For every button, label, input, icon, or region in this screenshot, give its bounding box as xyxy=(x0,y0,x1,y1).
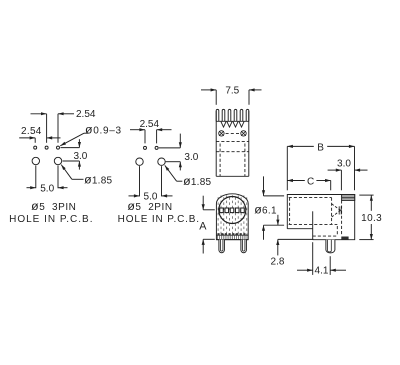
extension line hole2 xyxy=(46,114,48,143)
2-pin pattern: small pin hole 2 xyxy=(155,146,158,149)
3-pin pattern: small pin hole 1 xyxy=(34,146,37,149)
side view hidden vertical at band xyxy=(341,200,343,236)
dimension 2.54 (left, holes 1-2) line xyxy=(19,137,35,139)
side view hidden cavity right xyxy=(331,198,333,225)
top view tooth base line xyxy=(216,120,249,122)
3-pin pattern: large hole 2 xyxy=(54,157,61,164)
svg-text:ø1.85: ø1.85 xyxy=(84,172,112,186)
side view hidden lamp triangle xyxy=(332,204,341,211)
dimension 7.5 line xyxy=(201,89,216,91)
svg-text:4.1: 4.1 xyxy=(315,266,329,277)
svg-text:B: B xyxy=(317,142,324,153)
dimension 10.3 line xyxy=(370,195,372,211)
top view hidden vertical left xyxy=(219,144,221,177)
top view left mounting hole with cross xyxy=(219,131,224,136)
svg-text:2.54: 2.54 xyxy=(140,119,160,130)
svg-text:ø5 2PIN: ø5 2PIN xyxy=(127,199,172,213)
top view hidden line 2 xyxy=(216,151,249,153)
svg-text:2.54: 2.54 xyxy=(21,126,42,137)
dimension 2.54 (2-pin) line xyxy=(130,129,145,131)
top view center line between holes xyxy=(226,132,240,134)
front view contact row above band xyxy=(217,233,247,235)
front view left pin xyxy=(219,240,225,253)
3-pin pattern: small pin hole 2 xyxy=(45,146,48,149)
dimension 2.8 line xyxy=(277,239,279,255)
extension line hole3 xyxy=(57,114,59,143)
dimension 3.0 (2-pin) extensions xyxy=(159,147,181,149)
dimension A upper extension xyxy=(203,209,215,211)
dimension B extension lines xyxy=(286,146,288,190)
side view solder pad block xyxy=(341,237,348,240)
svg-text:2.54: 2.54 xyxy=(76,109,96,120)
top view hidden vertical right xyxy=(244,144,246,177)
dimension A lower extension xyxy=(203,238,215,240)
dimension 3.0 arrows xyxy=(78,139,80,147)
top view right mounting hole with cross xyxy=(241,131,246,136)
svg-text:3.0: 3.0 xyxy=(337,159,351,170)
svg-text:2.8: 2.8 xyxy=(271,257,285,268)
dimension C extension xyxy=(330,181,332,191)
side view hidden slot bottom xyxy=(313,235,338,237)
dimension 3.0 (2-pin) arrows xyxy=(179,134,181,148)
dimension dia6.1 leader from label xyxy=(277,215,279,225)
side view hidden cavity top xyxy=(289,197,332,199)
7.5 extension lines xyxy=(215,90,217,105)
side view outline xyxy=(287,195,354,240)
svg-text:7.5: 7.5 xyxy=(225,85,239,96)
dimension dia6.1 top extension xyxy=(264,195,285,197)
dimension 5.0 (2-pin) line xyxy=(129,195,140,197)
top view contact teeth xyxy=(216,109,249,121)
dimension 4.1 extension lines xyxy=(312,242,314,275)
dimension 5.0 (3-pin) extension lines xyxy=(35,165,37,188)
2-pin pattern: large hole 2 xyxy=(158,158,165,165)
front view right pin xyxy=(241,240,247,253)
front view rib texture xyxy=(218,197,247,235)
dimension 10.3 extension lines xyxy=(359,194,373,196)
leader for dia 1.85 (2-pin) xyxy=(165,165,177,181)
3-pin pattern: small pin hole 3 xyxy=(57,146,60,149)
svg-text:5.0: 5.0 xyxy=(144,191,158,202)
dimension 4.1 line xyxy=(297,269,313,271)
front view ceramic face circle dia 6.1 xyxy=(219,197,246,224)
svg-text:ø5 3PIN: ø5 3PIN xyxy=(31,199,76,213)
side view hidden slot right xyxy=(336,226,338,236)
front view bottom band xyxy=(216,234,248,236)
svg-text:HOLE IN P.C.B.: HOLE IN P.C.B. xyxy=(9,214,93,225)
side view knurled band xyxy=(342,195,355,201)
top view body outline xyxy=(215,111,217,176)
extension lines 2-pin small holes xyxy=(144,130,146,144)
dimension 5.0 (2-pin) extensions xyxy=(139,166,141,196)
front view contact window squares xyxy=(220,208,224,213)
2-pin pattern: small pin hole 1 xyxy=(144,146,147,149)
dimension C line xyxy=(287,180,305,182)
front view bottom edge xyxy=(216,239,248,241)
side view internal front edge xyxy=(312,211,314,239)
dimension 3.0 extension from large hole row xyxy=(63,160,80,162)
svg-text:ø0.9–3: ø0.9–3 xyxy=(85,123,122,137)
svg-text:C: C xyxy=(307,176,314,187)
dimension 2.8 extension xyxy=(278,238,314,240)
svg-text:5.0: 5.0 xyxy=(40,184,54,195)
2-pin pattern: large hole 1 xyxy=(136,158,143,165)
svg-text:A: A xyxy=(199,221,207,233)
side view hidden cavity left xyxy=(289,198,291,225)
svg-text:10.3: 10.3 xyxy=(361,213,382,224)
dimension 3.0 (3-pin) extension from small hole row xyxy=(61,147,80,149)
extension line hole1 xyxy=(34,138,36,143)
svg-text:ø1.85: ø1.85 xyxy=(183,174,211,188)
top view hidden line 1 xyxy=(216,140,249,142)
dimension 3.0 extension xyxy=(340,170,342,190)
svg-text:3.0: 3.0 xyxy=(184,152,198,163)
3-pin pattern: large hole 1 xyxy=(32,157,39,164)
leader for 0.9 pin holes xyxy=(60,133,84,146)
front view body outline xyxy=(216,194,248,240)
top view tooth notches xyxy=(221,122,244,128)
svg-text:3.0: 3.0 xyxy=(73,151,87,162)
dimension dia6.1 bottom extension xyxy=(264,224,285,226)
side view hidden cavity bottom xyxy=(289,223,338,225)
svg-text:HOLE IN P.C.B.: HOLE IN P.C.B. xyxy=(118,214,200,225)
dimension 5.0 line and arrows xyxy=(27,187,36,189)
side view lamp tip bars xyxy=(338,206,340,214)
dimension B line xyxy=(287,145,314,147)
dimension 2.54 (top, holes 2-3) line xyxy=(31,113,47,115)
side view pin xyxy=(326,240,335,253)
leader for dia 1.85 holes (3-pin) xyxy=(61,165,72,180)
svg-text:ø6.1: ø6.1 xyxy=(254,203,277,217)
dimension 3.0 (side) line xyxy=(328,169,342,171)
